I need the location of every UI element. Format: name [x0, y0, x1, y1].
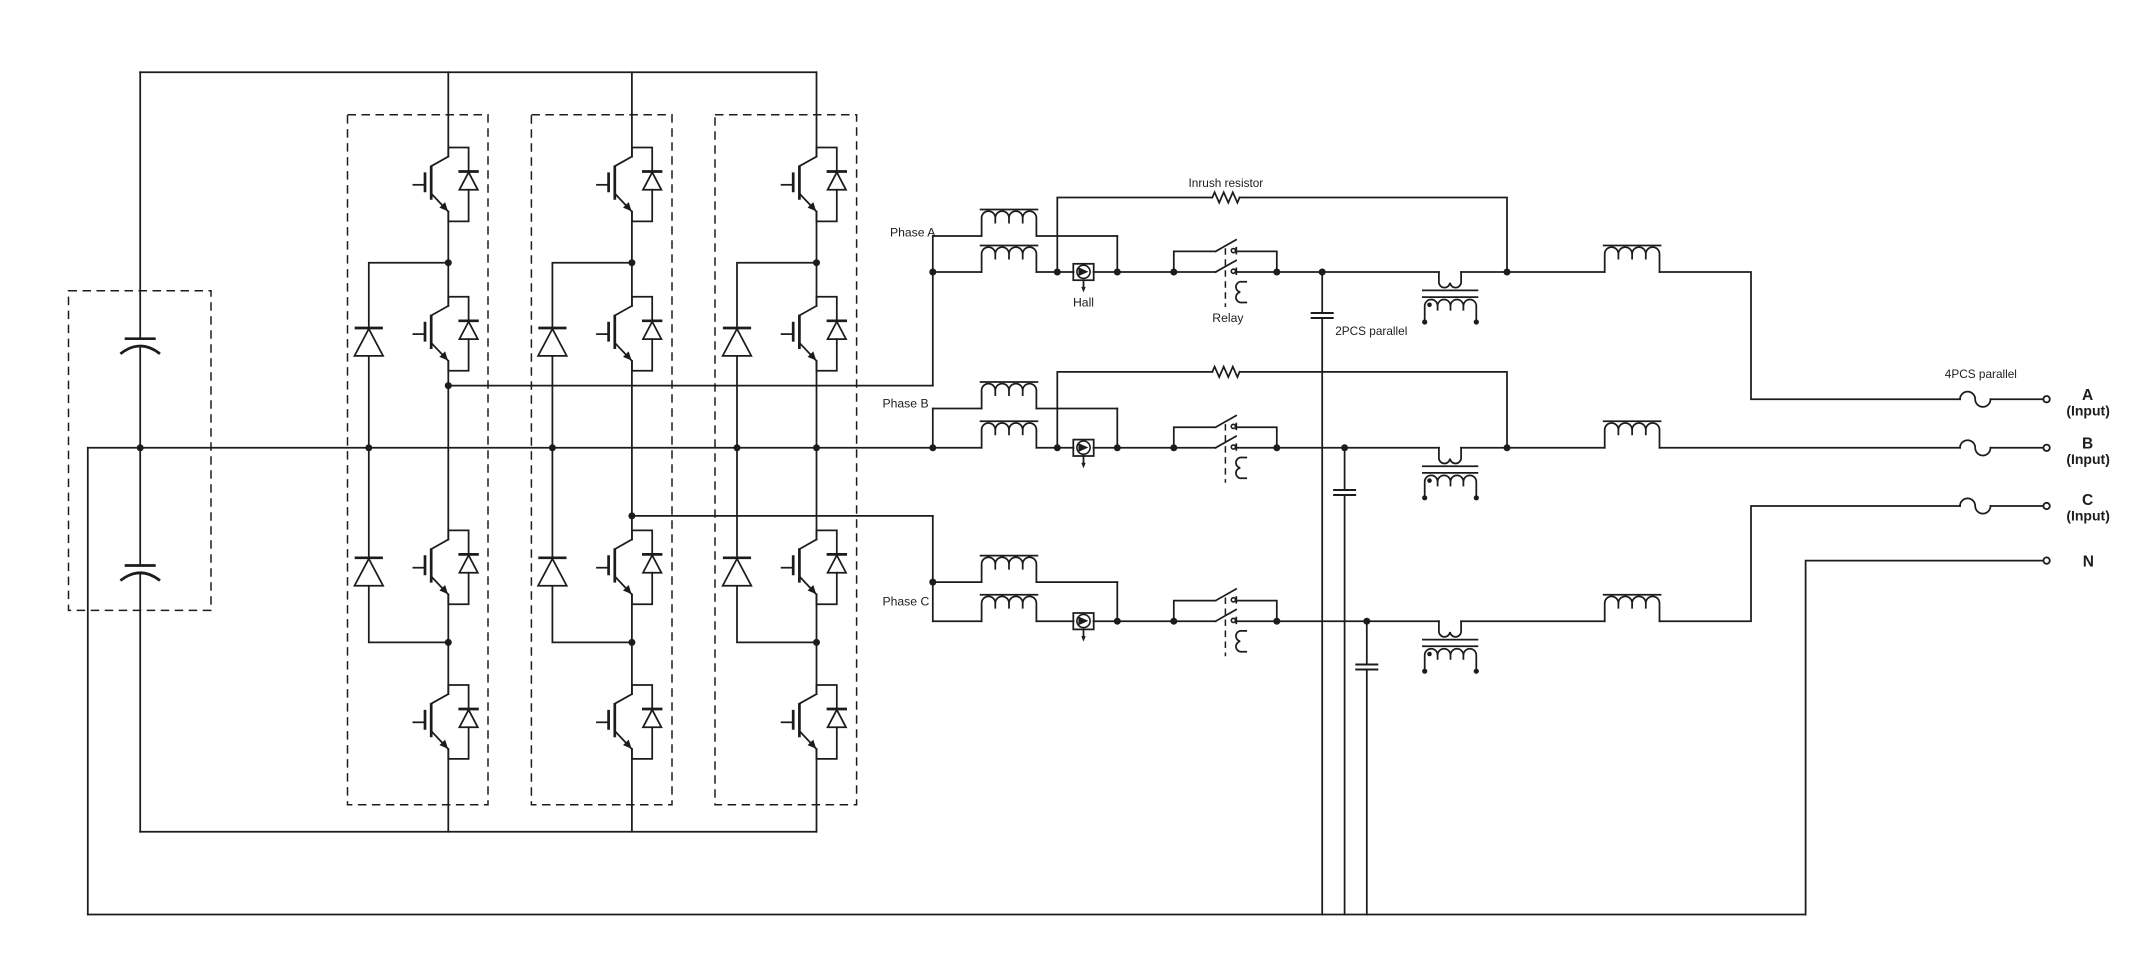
fuse F1 (phase A) [1960, 392, 1991, 407]
common-mode choke T2 (phase B) [1422, 448, 1479, 501]
relay K3 contacts and coil (phase C) [1174, 589, 1277, 656]
wire: C2 bottom down to negative rail [139, 574, 141, 831]
transistor Q12 (IGBT) with antiparallel diode D12 [782, 685, 847, 759]
wire: phase C line CM choke to second filter [1461, 620, 1605, 622]
transistor Q6 (IGBT) with antiparallel diode D6 [597, 297, 662, 371]
relay K1 contacts and coil (phase A) [1174, 240, 1277, 307]
wire: phase A inrush bypass branch [1057, 198, 1507, 273]
capacitor C1 (upper DC-link electrolytic) [120, 339, 160, 354]
node: phase A upper-branch rejoin [1114, 269, 1121, 276]
svg-text:4PCS parallel: 4PCS parallel [1945, 367, 2017, 381]
wire: leg 2 main column [631, 72, 633, 831]
node: phase C upper-branch rejoin [1114, 618, 1121, 625]
current sensor: Hall (phase A) [1073, 264, 1093, 293]
wire: leg 3 main column [816, 72, 818, 831]
node: phase B X-capacitor branch [1341, 444, 1348, 451]
inductor L5 (phase B lower choke) [981, 421, 1038, 448]
node: leg 1 clamp midpoint on neutral rail [365, 444, 372, 451]
wire: positive DC top rail [140, 71, 816, 73]
transistor Q8 (IGBT) with antiparallel diode D8 [597, 685, 662, 759]
node: phase B upper-branch rejoin [1114, 444, 1121, 451]
wire: phase B lower branch [933, 447, 1074, 449]
node: phase A inrush branch point [1054, 269, 1061, 276]
wire: phase A upper branch return riser [1116, 236, 1118, 272]
wire: phase A riser at filter input [932, 236, 934, 386]
terminal: A input [2043, 396, 2049, 402]
wire: phase C upper branch [933, 581, 1118, 583]
wire: phase A upper branch [933, 235, 1118, 237]
fuse F2 (phase B) [1960, 440, 1991, 455]
node: phase B relay left terminal [1170, 444, 1177, 451]
inductor L7 (phase C upper choke) [981, 556, 1038, 583]
node: leg 2 clamp midpoint on neutral rail [549, 444, 556, 451]
resistor R2 (inrush resistor, phase B) [1212, 367, 1239, 377]
node: phase A split to lower choke [929, 269, 936, 276]
node: leg 3 clamp midpoint on neutral rail [734, 444, 741, 451]
wire: neutral bus riser to N terminal [1806, 561, 2044, 915]
inductor L2 (phase A lower choke) [981, 246, 1038, 273]
wire: DC midpoint rail to phase B junction [88, 447, 933, 449]
dashed enclosure: DC capacitor bank [69, 291, 212, 611]
wire: phase A feed to input fuse [1660, 272, 2044, 399]
dashed enclosure: phase-leg module 3 [715, 115, 857, 805]
node: phase C X-capacitor branch [1363, 618, 1370, 625]
svg-text:N: N [2083, 554, 2094, 571]
node: leg 3 Q11/Q12 junction [813, 639, 820, 646]
wire: phase B inrush bypass branch [1057, 372, 1507, 448]
wire: phase C line Hall to relay [1094, 620, 1216, 622]
node: phase A relay right terminal [1273, 269, 1280, 276]
current sensor: Hall (phase B) [1073, 440, 1093, 469]
current sensor: Hall (phase C) [1073, 613, 1093, 642]
wire: phase B line CM choke to second filter [1461, 447, 1605, 449]
wire: phase C lower branch [933, 620, 1074, 622]
wire: leg 3 clamp branch [737, 263, 817, 643]
svg-text:Hall: Hall [1073, 295, 1094, 309]
relay K2 contacts and coil (phase B) [1174, 416, 1277, 483]
wire: DC capacitor column drop from top rail [139, 72, 141, 338]
svg-text:Phase C: Phase C [883, 595, 930, 609]
fuse F3 (phase C) [1960, 498, 1991, 513]
node: leg 1 phase A tap [445, 382, 452, 389]
inductor L1 (phase A upper choke) [981, 210, 1038, 237]
wire: phase B riser at filter input [932, 409, 934, 448]
wire: leg 1 main column [447, 72, 449, 831]
node: phase C split to upper choke [929, 579, 936, 586]
capacitor CX2 (phase B X-cap to neutral) [1333, 448, 1356, 915]
wire: phase B line Hall to relay [1094, 447, 1216, 449]
resistor R1 (Inrush resistor, phase A) [1212, 192, 1239, 202]
svg-text:Inrush resistor: Inrush resistor [1189, 176, 1264, 190]
transistor Q5 (IGBT) with antiparallel diode D5 [597, 148, 662, 222]
inductor L4 (phase B upper choke) [981, 382, 1038, 409]
svg-text:(Input): (Input) [2066, 507, 2110, 523]
wire: midpoint left drop to neutral bus [87, 448, 89, 915]
clamp diode D13 (upper) [355, 328, 384, 356]
transistor Q1 (IGBT) with antiparallel diode D1 [413, 148, 478, 222]
transistor Q2 (IGBT) with antiparallel diode D2 [413, 297, 478, 371]
node: phase B junction on neutral rail line [929, 444, 936, 451]
wire: phase C line relay to CM choke [1236, 620, 1439, 622]
dashed enclosure: phase-leg module 2 [531, 115, 672, 805]
terminal: N [2043, 557, 2049, 563]
node: leg 2 Q5/Q6 junction [628, 259, 635, 266]
svg-text:2PCS parallel: 2PCS parallel [1335, 324, 1407, 338]
wire: phase B upper branch [933, 408, 1118, 410]
capacitor CX3 (phase C X-cap to neutral) [1355, 621, 1378, 914]
wire: phase A line relay to CM choke [1236, 271, 1439, 273]
svg-text:C: C [2082, 492, 2093, 509]
transistor Q7 (IGBT) with antiparallel diode D7 [597, 530, 662, 604]
wire: phase C tap line to filter [632, 515, 933, 517]
transistor Q4 (IGBT) with antiparallel diode D4 [413, 685, 478, 759]
dashed enclosure: phase-leg module 1 [348, 115, 489, 805]
node: leg 3 Q9/Q10 junction [813, 259, 820, 266]
wire: C1 bottom to midpoint [139, 348, 141, 448]
clamp diode D18 (lower) [723, 558, 752, 586]
inductor L6 (phase B second stage) [1604, 421, 1661, 448]
wire: phase A line CM choke to second filter [1461, 271, 1605, 273]
transistor Q3 (IGBT) with antiparallel diode D3 [413, 530, 478, 604]
wire: leg 2 clamp branch [552, 263, 632, 643]
node: DC midpoint at capacitors [137, 444, 144, 451]
wire: phase C upper branch return riser [1116, 582, 1118, 621]
clamp diode D15 (upper) [538, 328, 567, 356]
node: leg 3 phase B tap on neutral rail [813, 444, 820, 451]
transistor Q9 (IGBT) with antiparallel diode D9 [782, 148, 847, 222]
inductor L9 (phase C second stage) [1604, 595, 1661, 622]
svg-text:Phase A: Phase A [890, 225, 936, 239]
capacitor C2 (lower DC-link electrolytic) [120, 566, 160, 581]
wire: bottom neutral bus [88, 914, 1806, 916]
wire: midpoint to C2 top [139, 448, 141, 566]
wire: phase C feed to input fuse [1660, 506, 2044, 621]
wire: phase C riser at filter input [932, 516, 934, 621]
wire: leg 1 clamp branch [369, 263, 449, 643]
wire: negative DC bottom rail [140, 831, 816, 833]
transistor Q11 (IGBT) with antiparallel diode D11 [782, 530, 847, 604]
terminal: B input [2043, 445, 2049, 451]
clamp diode D17 (upper) [723, 328, 752, 356]
common-mode choke T1 (phase A) [1422, 272, 1479, 325]
wire: phase A tap line to filter [448, 385, 933, 387]
svg-text:(Input): (Input) [2066, 451, 2110, 467]
node: phase B inrush return [1504, 444, 1511, 451]
inductor L8 (phase C lower choke) [981, 595, 1038, 622]
svg-text:Relay: Relay [1212, 311, 1244, 325]
wire: phase A line Hall to relay [1094, 271, 1216, 273]
node: phase B inrush branch point [1054, 444, 1061, 451]
wire: phase A lower branch [933, 271, 1074, 273]
svg-text:(Input): (Input) [2066, 403, 2110, 419]
inductor L3 (phase A second stage) [1604, 246, 1661, 273]
transistor Q10 (IGBT) with antiparallel diode D10 [782, 297, 847, 371]
wire: phase B line relay to CM choke [1236, 447, 1439, 449]
node: leg 1 Q3/Q4 junction [445, 639, 452, 646]
wire: phase B upper branch return riser [1116, 409, 1118, 448]
node: phase A inrush return [1504, 269, 1511, 276]
clamp diode D14 (lower) [355, 558, 384, 586]
node: leg 1 Q1/Q2 junction [445, 259, 452, 266]
node: leg 2 phase C tap [628, 512, 635, 519]
common-mode choke T3 (phase C) [1422, 621, 1479, 674]
node: phase C relay right terminal [1273, 618, 1280, 625]
node: phase C relay left terminal [1170, 618, 1177, 625]
svg-text:Phase B: Phase B [883, 397, 929, 411]
node: leg 2 Q7/Q8 junction [628, 639, 635, 646]
svg-text:A: A [2082, 387, 2093, 404]
node: phase A X-capacitor branch [1319, 269, 1326, 276]
clamp diode D16 (lower) [538, 558, 567, 586]
terminal: C input [2043, 503, 2049, 509]
capacitor CX1 (phase A X-cap to neutral) [1311, 272, 1334, 915]
node: phase A relay left terminal [1170, 269, 1177, 276]
node: phase B relay right terminal [1273, 444, 1280, 451]
wire: phase B feed to input fuse [1660, 447, 2044, 449]
